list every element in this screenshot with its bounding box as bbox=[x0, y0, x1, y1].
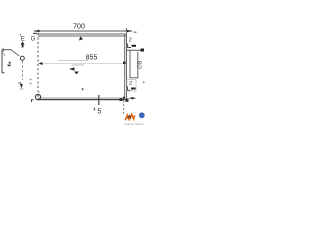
svg-text:2: 2 bbox=[129, 81, 132, 87]
svg-text:2: 2 bbox=[129, 38, 132, 44]
svg-text:700: 700 bbox=[73, 23, 85, 30]
svg-text:E: E bbox=[21, 36, 25, 42]
svg-text:5: 5 bbox=[97, 109, 101, 116]
svg-text:G: G bbox=[31, 37, 36, 43]
svg-text:∅8: ∅8 bbox=[137, 60, 144, 69]
